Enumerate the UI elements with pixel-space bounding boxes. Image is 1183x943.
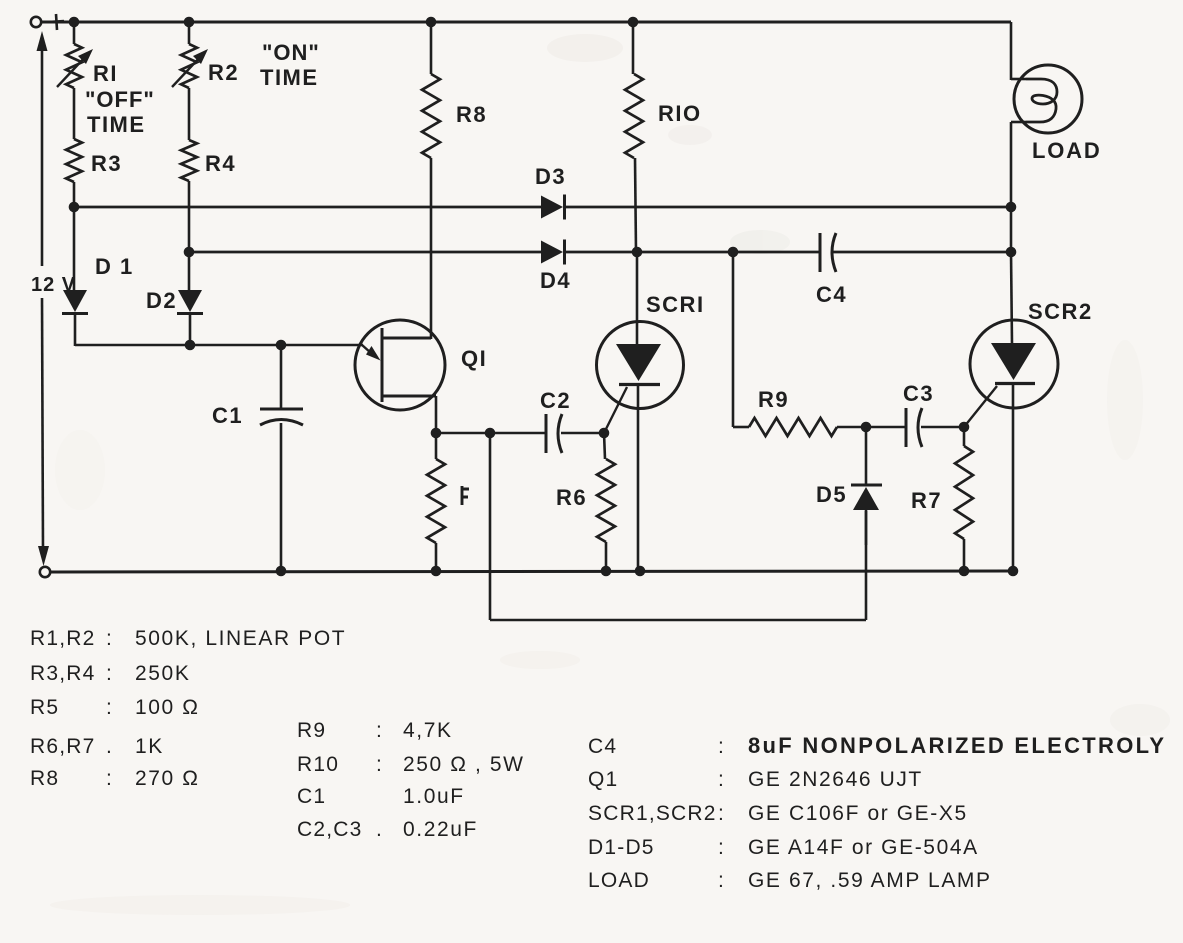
capacitor C3	[866, 408, 964, 447]
svg-text:C4: C4	[816, 282, 847, 307]
label R10	[658, 101, 702, 126]
label R1	[93, 61, 118, 86]
svg-text:RI: RI	[93, 61, 118, 86]
svg-text:SCR2: SCR2	[1028, 299, 1093, 324]
label R4	[205, 151, 236, 176]
thyristor SCR2	[964, 252, 1058, 571]
junction: R2 on top rail	[184, 17, 195, 28]
svg-text:LOAD: LOAD	[588, 869, 650, 892]
12V source arrow (double-headed)	[37, 31, 50, 566]
legend LOAD value	[588, 869, 992, 892]
plus sign at positive terminal	[48, 14, 64, 30]
resistor R5	[427, 433, 445, 571]
svg-text::: :	[106, 627, 113, 650]
svg-text:SCR1,SCR2: SCR1,SCR2	[588, 802, 717, 825]
label R2	[208, 60, 239, 85]
resistor R9	[733, 252, 866, 436]
svg-text:270 Ω: 270 Ω	[135, 767, 200, 790]
junction: D2 on line E	[185, 340, 196, 351]
svg-text::: :	[718, 869, 725, 892]
wire: line B from R4 junction to SCR2 anode branch (y=252)	[189, 251, 1011, 254]
svg-text:C1: C1	[297, 785, 326, 808]
svg-text:R3,R4: R3,R4	[30, 662, 96, 685]
legend C1 value	[297, 785, 465, 808]
svg-text:R8: R8	[456, 102, 487, 127]
svg-text:250K: 250K	[135, 662, 190, 685]
junction: R9 / C3 / D5 cathode	[861, 422, 872, 433]
svg-text:"OFF": "OFF"	[85, 87, 155, 112]
legend C2,C3 value	[297, 818, 478, 841]
label C4	[816, 282, 847, 307]
resistor R1 (potentiometer, "OFF" time)	[57, 22, 93, 139]
svg-text:TIME: TIME	[260, 65, 319, 90]
wire: line E (D1/D2 cathodes to Q1 emitter, y=345)	[75, 344, 363, 347]
svg-text:4,7K: 4,7K	[403, 719, 453, 742]
svg-text:C2,C3: C2,C3	[297, 818, 363, 841]
junction: R6 on bottom rail	[601, 566, 612, 577]
legend R1,R2 value	[30, 627, 346, 650]
svg-text:1K: 1K	[135, 735, 164, 758]
svg-text::: :	[376, 753, 383, 776]
label R5 (partial scan glyph)	[462, 486, 469, 505]
resistor R2 (potentiometer, "ON" time)	[172, 22, 208, 140]
legend D1-D5 value	[588, 836, 979, 859]
svg-text:C4: C4	[588, 735, 617, 758]
svg-text:QI: QI	[461, 346, 487, 371]
svg-text:R8: R8	[30, 767, 59, 790]
resistor R7	[955, 427, 973, 571]
label "OFF" TIME	[85, 87, 155, 137]
wire: load branch from top rail	[1011, 22, 1026, 252]
junction: R10 on top rail	[628, 17, 639, 28]
label C3	[903, 381, 934, 406]
transistor Q1 (2N2646 UJT)	[355, 320, 445, 433]
junction: line B / SCR2 anode branch	[1006, 247, 1017, 258]
junction: R4 / D2 / trigger-line B	[184, 247, 195, 258]
svg-text:D3: D3	[535, 164, 566, 189]
svg-text:D2: D2	[146, 288, 177, 313]
resistor R8	[422, 22, 440, 339]
junction: R8 on top rail	[426, 17, 437, 28]
svg-text:100 Ω: 100 Ω	[135, 696, 200, 719]
svg-text:500K, LINEAR POT: 500K, LINEAR POT	[135, 627, 346, 650]
label C1	[212, 403, 243, 428]
diode D5	[851, 427, 882, 545]
junction: line A / load branch	[1006, 202, 1017, 213]
label D2	[146, 288, 177, 313]
svg-text:LOAD: LOAD	[1032, 138, 1102, 163]
diode D1	[62, 207, 88, 346]
svg-text:RIO: RIO	[658, 101, 702, 126]
legend R10 value	[297, 753, 525, 776]
junction: C2 / R6 / SCR1 gate	[599, 428, 610, 439]
junction: C3 / R7 / SCR2 gate	[959, 422, 970, 433]
label R6	[556, 485, 587, 510]
legend R5 value	[30, 696, 200, 719]
diode D4	[541, 240, 565, 265]
svg-text:"ON": "ON"	[262, 40, 320, 65]
label LOAD	[1032, 138, 1102, 163]
diode D3	[541, 195, 565, 220]
junction: C1 on bottom rail	[276, 566, 287, 577]
legend R8 value	[30, 767, 200, 790]
junction: R3 / D1 / gate-line A	[69, 202, 80, 213]
legend C4 value	[588, 733, 1166, 758]
resistor R6	[597, 433, 615, 571]
resistor R4	[181, 140, 197, 252]
label Q1	[461, 346, 487, 371]
label R9	[758, 387, 789, 412]
legend R3,R4 value	[30, 662, 190, 685]
resistor R10	[625, 22, 643, 252]
label SCR2	[1028, 299, 1093, 324]
label SCR1	[646, 292, 705, 317]
label D3	[535, 164, 566, 189]
diode D2	[177, 252, 203, 346]
capacitor C2	[490, 414, 604, 453]
legend Q1 value	[588, 768, 923, 791]
junction: R1 on top rail	[69, 17, 80, 28]
svg-text::: :	[106, 767, 113, 790]
svg-text::: :	[718, 768, 725, 791]
label R8	[456, 102, 487, 127]
svg-text:C2: C2	[540, 388, 571, 413]
svg-text:GE 2N2646 UJT: GE 2N2646 UJT	[748, 768, 923, 791]
junction: C1 on line E	[276, 340, 287, 351]
junction: Q1 B1 / R5 / C2 node	[431, 428, 490, 439]
lamp LOAD	[1014, 65, 1082, 133]
svg-text:R6: R6	[556, 485, 587, 510]
wire: bottom supply rail	[51, 571, 1013, 572]
junction: R5 on bottom rail	[431, 566, 442, 577]
svg-text:250 Ω , 5W: 250 Ω , 5W	[403, 753, 525, 776]
svg-text:.: .	[376, 818, 383, 841]
svg-text:R4: R4	[205, 151, 236, 176]
thyristor SCR1	[597, 252, 684, 571]
junction: crossover drop node	[485, 428, 496, 439]
svg-text:GE A14F or GE-504A: GE A14F or GE-504A	[748, 836, 979, 859]
svg-text::: :	[718, 735, 725, 758]
wire: top supply rail	[42, 21, 1011, 24]
label R7	[911, 488, 942, 513]
label D4	[540, 268, 571, 293]
svg-text:R2: R2	[208, 60, 239, 85]
svg-text:R10: R10	[297, 753, 339, 776]
capacitor C1	[260, 345, 303, 571]
terminal: negative supply (open circle, bottom left)	[40, 567, 50, 577]
label 12 V	[31, 274, 76, 296]
legend R6,R7 value	[30, 735, 164, 758]
svg-text:R7: R7	[911, 488, 942, 513]
svg-text:C3: C3	[903, 381, 934, 406]
svg-text:0.22uF: 0.22uF	[403, 818, 478, 841]
svg-text:Q1: Q1	[588, 768, 618, 791]
svg-text:1.0uF: 1.0uF	[403, 785, 465, 808]
svg-text:.: .	[106, 735, 113, 758]
label C2	[540, 388, 571, 413]
svg-text:8uF NONPOLARIZED ELECTROLY: 8uF NONPOLARIZED ELECTROLY	[748, 733, 1166, 758]
junction: SCR1 cathode on bottom rail	[635, 566, 646, 577]
junction: SCR2 cathode on bottom rail	[1008, 566, 1019, 577]
svg-text:R1,R2: R1,R2	[30, 627, 96, 650]
wire: line A from R3 junction to load branch (y=207)	[74, 206, 1011, 209]
svg-text::: :	[718, 802, 725, 825]
svg-text:GE C106F or GE-X5: GE C106F or GE-X5	[748, 802, 968, 825]
wire: bypass from C2 node down, across, up to D5 anode	[490, 433, 866, 620]
svg-text:R9: R9	[297, 719, 326, 742]
junction: R10 / SCR1 anode on line B	[632, 247, 643, 258]
resistor R3	[66, 139, 82, 207]
svg-text:D4: D4	[540, 268, 571, 293]
svg-text:SCRI: SCRI	[646, 292, 705, 317]
label R3	[91, 151, 122, 176]
svg-text:R5: R5	[30, 696, 59, 719]
svg-text:R6,R7: R6,R7	[30, 735, 96, 758]
svg-text:D1-D5: D1-D5	[588, 836, 655, 859]
label "ON" TIME	[260, 40, 320, 90]
junction: R9 branch on line B	[728, 247, 739, 258]
legend SCR1,SCR2 value	[588, 802, 968, 825]
terminal: positive supply (open circle, top left)	[31, 17, 41, 27]
svg-text::: :	[106, 662, 113, 685]
junction: R7 on bottom rail	[959, 566, 970, 577]
svg-text:R9: R9	[758, 387, 789, 412]
capacitor C4	[820, 233, 836, 272]
svg-text:GE 67, .59 AMP LAMP: GE 67, .59 AMP LAMP	[748, 869, 992, 892]
svg-text::: :	[718, 836, 725, 859]
svg-text:D 1: D 1	[95, 254, 134, 279]
label D5	[816, 482, 847, 507]
svg-text::: :	[106, 696, 113, 719]
svg-text:TIME: TIME	[87, 112, 146, 137]
svg-text:R3: R3	[91, 151, 122, 176]
svg-text:D5: D5	[816, 482, 847, 507]
svg-text::: :	[376, 719, 383, 742]
label D 1	[95, 254, 134, 279]
legend R9 value	[297, 719, 453, 742]
svg-text:C1: C1	[212, 403, 243, 428]
